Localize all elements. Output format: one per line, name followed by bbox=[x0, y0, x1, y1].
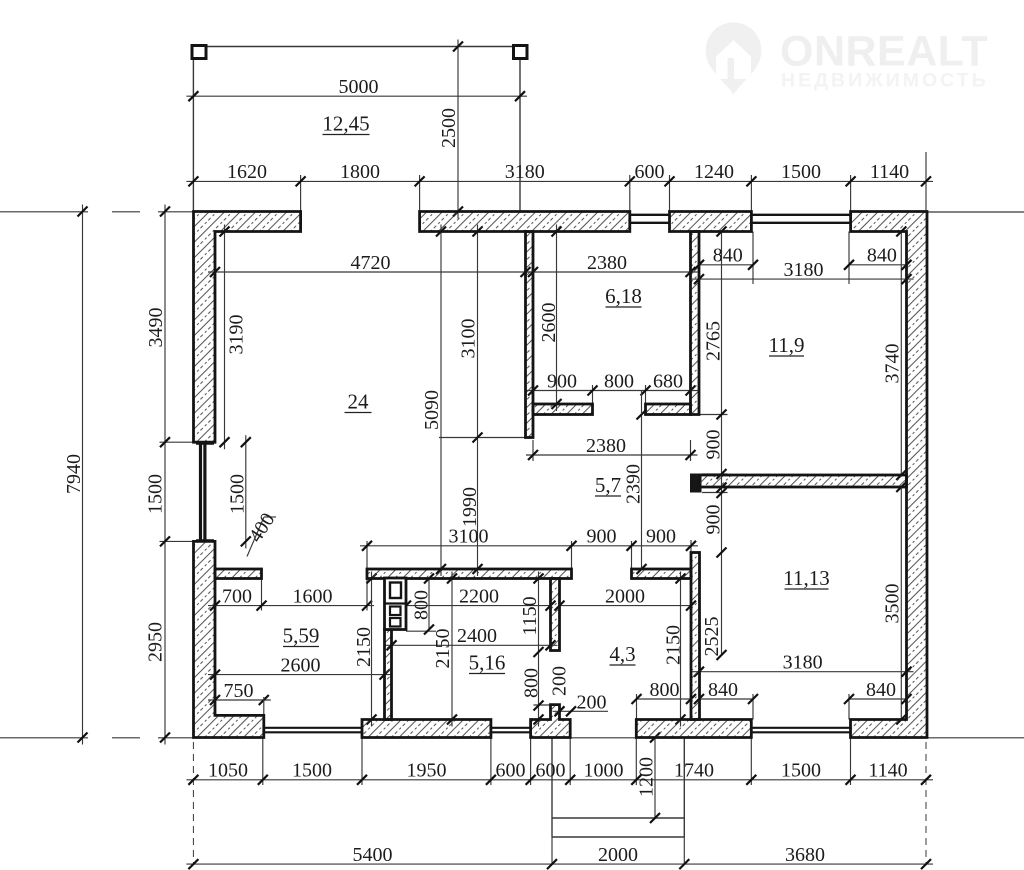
svg-text:1740: 1740 bbox=[674, 760, 714, 782]
svg-text:3100: 3100 bbox=[458, 319, 480, 359]
svg-text:2600: 2600 bbox=[538, 303, 560, 343]
wall W2b (6.18 bottom right) bbox=[646, 404, 691, 415]
dim col 2150 (5.16) bbox=[451, 572, 453, 727]
svg-text:900: 900 bbox=[587, 526, 617, 548]
dim row bottom N (5400/2000/3680) bbox=[186, 863, 933, 865]
window bottom 1500 right bbox=[751, 727, 850, 729]
svg-text:1140: 1140 bbox=[868, 760, 907, 782]
svg-text:900: 900 bbox=[703, 430, 725, 460]
window sill extension left top bbox=[160, 441, 216, 443]
terrace outline top edge bbox=[206, 46, 514, 48]
dim col 3190 bbox=[224, 225, 226, 450]
dim col 2150 (5.59) bbox=[371, 572, 373, 727]
svg-text:НЕДВИЖИМОСТЬ: НЕДВИЖИМОСТЬ bbox=[781, 70, 989, 92]
svg-text:1200: 1200 bbox=[636, 757, 658, 797]
svg-text:700: 700 bbox=[222, 585, 252, 607]
dim col 2150 (4.3) bbox=[680, 572, 682, 727]
svg-text:ONREALT: ONREALT bbox=[780, 28, 988, 76]
porch right edge bbox=[683, 738, 685, 838]
extension 750 ledge bbox=[263, 697, 265, 715]
svg-text:3490: 3490 bbox=[145, 308, 167, 348]
wall W2a (6.18 bottom left) bbox=[533, 404, 593, 415]
terrace right edge line bbox=[519, 59, 521, 212]
porch bottom line bbox=[552, 836, 684, 838]
svg-text:2400: 2400 bbox=[457, 625, 497, 647]
svg-text:1500: 1500 bbox=[145, 474, 167, 514]
svg-text:840: 840 bbox=[867, 245, 897, 267]
svg-text:2000: 2000 bbox=[598, 844, 638, 866]
window bottom 1500 left bbox=[263, 727, 362, 729]
porch step line bbox=[552, 817, 684, 819]
svg-text:3180: 3180 bbox=[783, 652, 823, 674]
leader 400 bbox=[247, 517, 264, 557]
svg-text:2600: 2600 bbox=[281, 654, 321, 676]
svg-text:680: 680 bbox=[653, 370, 683, 392]
dim row 840/840 (11.9) bbox=[699, 264, 753, 266]
svg-text:2380: 2380 bbox=[586, 435, 626, 457]
extension pier right top bbox=[702, 473, 728, 475]
dim col 2765/900/900/2525 bbox=[721, 232, 723, 656]
dim row bottom M bbox=[186, 779, 933, 781]
svg-text:1500: 1500 bbox=[227, 474, 249, 514]
dim row 2200 bbox=[406, 605, 551, 607]
svg-text:3100: 3100 bbox=[449, 526, 489, 548]
window top 600 bbox=[630, 214, 670, 216]
extension wall 6.18 bottom right bbox=[699, 414, 728, 416]
svg-text:1000: 1000 bbox=[584, 760, 624, 782]
dim row 2380 (corridor) bbox=[526, 454, 698, 456]
porch left edge bbox=[551, 738, 553, 838]
svg-text:1050: 1050 bbox=[208, 760, 248, 782]
dim col 7940 bbox=[82, 205, 84, 745]
dim row 2380 (6.18) bbox=[526, 271, 698, 273]
extension bottom dashed left bbox=[192, 742, 194, 864]
outer wall bottom segment 2 bbox=[362, 720, 491, 738]
svg-text:840: 840 bbox=[708, 679, 738, 701]
extension row I jambs bbox=[261, 579, 263, 611]
svg-text:4,3: 4,3 bbox=[609, 642, 635, 666]
wall W5 (11.9|11.13) bbox=[699, 475, 907, 487]
dim col 2390 bbox=[641, 415, 643, 570]
dim row 800 (4.3 bottom) bbox=[637, 698, 692, 700]
dim col 5090 bbox=[440, 225, 442, 577]
svg-text:1140: 1140 bbox=[870, 161, 909, 183]
dim row 900/800/680 bbox=[526, 390, 698, 392]
wall W3 (6.18|11.9) bbox=[691, 232, 700, 415]
svg-text:1800: 1800 bbox=[340, 161, 380, 183]
svg-text:6,18: 6,18 bbox=[605, 284, 642, 308]
svg-text:1500: 1500 bbox=[781, 760, 821, 782]
svg-text:1240: 1240 bbox=[694, 161, 734, 183]
dim col left (3490/1500/2950) bbox=[164, 205, 166, 745]
svg-text:5000: 5000 bbox=[339, 76, 379, 98]
outer wall bottom segment 3 bbox=[636, 720, 751, 738]
svg-text:4720: 4720 bbox=[351, 252, 391, 274]
dim row 2000 (4.3) bbox=[560, 605, 692, 607]
svg-text:5,59: 5,59 bbox=[283, 624, 320, 648]
extension line bottom-left (axis y=737.5) bbox=[0, 737, 88, 739]
svg-text:2150: 2150 bbox=[663, 625, 685, 665]
window top 1500 bbox=[751, 214, 850, 216]
extension wall W1 end bbox=[439, 437, 526, 439]
vent shaft box bbox=[385, 578, 407, 630]
wall W6 (corridor|11.13) bbox=[691, 553, 700, 720]
wall W1 (24|6.18) bbox=[526, 232, 534, 438]
dim col 1150/800/200 bbox=[538, 572, 540, 727]
terrace column top-left bbox=[192, 46, 206, 59]
svg-text:3680: 3680 bbox=[785, 844, 825, 866]
svg-text:11,13: 11,13 bbox=[783, 566, 829, 590]
svg-text:2200: 2200 bbox=[459, 585, 499, 607]
extension line top-right bbox=[927, 211, 1024, 213]
extension bottom row M bbox=[262, 738, 264, 786]
dim col 1500 window inner bbox=[245, 435, 247, 548]
wall W7a (kitchen left) bbox=[215, 569, 262, 579]
svg-text:5400: 5400 bbox=[353, 844, 393, 866]
svg-text:5090: 5090 bbox=[421, 390, 443, 430]
extension kitchen row jambs bbox=[366, 541, 368, 569]
dim col 800 (vent) bbox=[428, 579, 430, 630]
porch threshold bbox=[552, 737, 684, 739]
dim col 3500 bbox=[900, 487, 902, 720]
dim row 2600 (5.59) bbox=[208, 674, 392, 676]
svg-text:2380: 2380 bbox=[587, 252, 627, 274]
wall W7b (kitchen main) bbox=[367, 569, 572, 579]
svg-text:24: 24 bbox=[348, 390, 370, 414]
extension stub 200 bbox=[534, 704, 551, 706]
dim row 4720 bbox=[208, 271, 533, 273]
svg-text:2000: 2000 bbox=[605, 585, 645, 607]
wall pier (corridor door posts) bbox=[690, 474, 702, 493]
extension 6.18 door jambs bbox=[592, 385, 594, 404]
svg-text:600: 600 bbox=[536, 760, 566, 782]
extension vent shaft bottom bbox=[406, 630, 436, 632]
svg-text:3190: 3190 bbox=[226, 315, 248, 355]
dim col 3740 bbox=[900, 232, 902, 476]
svg-text:2150: 2150 bbox=[353, 627, 375, 667]
dim col 2600 (6.18) bbox=[556, 225, 558, 412]
extension top-right corner tall bbox=[925, 152, 927, 212]
svg-text:900: 900 bbox=[703, 505, 725, 535]
terrace left edge line bbox=[192, 59, 194, 212]
wall W7c (kitchen right) bbox=[632, 569, 692, 579]
svg-text:800: 800 bbox=[650, 679, 680, 701]
dim row top (1620/1800/3180/600/1240/1500/1140) bbox=[186, 180, 933, 182]
extension line top-left (axis y=211.8) bbox=[0, 211, 88, 213]
dim row 840/840 (11.13) bbox=[699, 698, 753, 700]
dim row 700/1600 bbox=[208, 605, 374, 607]
svg-text:840: 840 bbox=[713, 245, 743, 267]
outer wall top segment 2 bbox=[420, 212, 630, 232]
logo watermark pin bbox=[706, 22, 762, 95]
extension line bottom-right bbox=[927, 737, 1024, 739]
svg-text:5,7: 5,7 bbox=[595, 473, 621, 497]
svg-text:1600: 1600 bbox=[293, 585, 333, 607]
dim row 5000 bbox=[186, 95, 527, 97]
outer wall top segment 3 bbox=[670, 212, 752, 232]
svg-text:600: 600 bbox=[496, 760, 526, 782]
svg-text:2950: 2950 bbox=[145, 622, 167, 662]
outer wall bottom pier with stub bbox=[531, 705, 571, 738]
svg-text:2525: 2525 bbox=[701, 617, 723, 657]
outer wall top-left L (room 24 corner) bbox=[194, 212, 301, 443]
svg-text:12,45: 12,45 bbox=[322, 112, 369, 136]
extension pier right bottom bbox=[702, 492, 728, 494]
svg-text:3500: 3500 bbox=[882, 584, 904, 624]
extension window 11.9 jambs bbox=[752, 232, 754, 285]
outer wall bottom-left L bbox=[194, 541, 264, 737]
dim col 2500 bbox=[457, 40, 459, 219]
extension corridor 2380 bbox=[532, 440, 534, 461]
svg-text:1500: 1500 bbox=[781, 161, 821, 183]
outer wall right C-shape bbox=[851, 212, 928, 738]
svg-text:1150: 1150 bbox=[519, 596, 541, 635]
svg-text:2500: 2500 bbox=[438, 108, 460, 148]
svg-text:1990: 1990 bbox=[459, 487, 481, 527]
svg-text:7940: 7940 bbox=[63, 454, 85, 494]
extension bottom dashed right bbox=[925, 742, 927, 864]
svg-text:900: 900 bbox=[547, 370, 577, 392]
window sill extension left bottom bbox=[160, 540, 216, 542]
dim row 2400 bbox=[385, 644, 558, 646]
svg-text:1620: 1620 bbox=[227, 161, 267, 183]
svg-text:2390: 2390 bbox=[623, 464, 645, 504]
svg-text:840: 840 bbox=[866, 679, 896, 701]
terrace column top-right bbox=[514, 46, 528, 59]
dim col 3100/1990 bbox=[477, 225, 479, 577]
svg-text:3180: 3180 bbox=[784, 259, 824, 281]
wall W8 (5.16|4.3) bbox=[551, 579, 560, 651]
svg-text:800: 800 bbox=[521, 668, 543, 698]
dim row 200 (stub) bbox=[553, 710, 609, 712]
window left 1500 bbox=[199, 443, 202, 541]
svg-text:600: 600 bbox=[635, 161, 665, 183]
svg-text:1500: 1500 bbox=[292, 760, 332, 782]
dim row 3180 (11.13) bbox=[692, 671, 914, 673]
svg-text:2150: 2150 bbox=[432, 629, 454, 669]
svg-text:3740: 3740 bbox=[882, 344, 904, 384]
svg-text:1950: 1950 bbox=[407, 760, 447, 782]
wall W9 (5.59|5.16) bbox=[385, 630, 392, 720]
svg-text:200: 200 bbox=[577, 692, 607, 714]
dim row 3180 (11.9) bbox=[692, 278, 914, 280]
svg-text:3180: 3180 bbox=[505, 161, 545, 183]
svg-text:750: 750 bbox=[224, 680, 254, 702]
dim row 750 bbox=[208, 699, 271, 701]
svg-text:900: 900 bbox=[646, 526, 676, 548]
svg-text:11,9: 11,9 bbox=[769, 333, 805, 357]
svg-text:5,16: 5,16 bbox=[469, 651, 506, 675]
svg-text:200: 200 bbox=[549, 666, 571, 696]
extension top wall jambs bbox=[300, 175, 302, 212]
svg-text:800: 800 bbox=[604, 370, 634, 392]
dim col 1200 (porch) bbox=[654, 738, 656, 819]
dim row 3100/900/900 (kitchen) bbox=[360, 545, 698, 547]
svg-text:2765: 2765 bbox=[703, 321, 725, 361]
svg-text:800: 800 bbox=[411, 590, 433, 620]
window bottom 600 bbox=[491, 727, 531, 729]
extension bottom windows 11.13 bbox=[752, 694, 754, 720]
